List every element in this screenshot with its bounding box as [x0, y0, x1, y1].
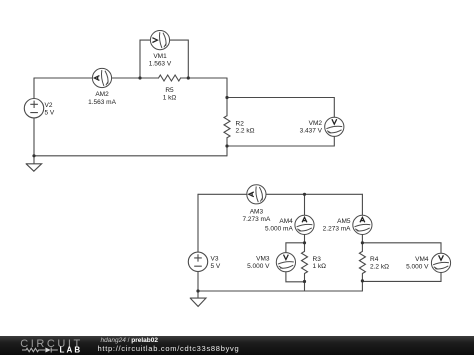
- wire: V3 top stub: [197, 194, 199, 252]
- svg-text:5.000 mA: 5.000 mA: [265, 225, 293, 232]
- svg-text:VM4: VM4: [415, 256, 429, 263]
- svg-text:1.563 V: 1.563 V: [149, 60, 172, 67]
- svg-text:VM2: VM2: [309, 120, 323, 127]
- resistor R5: [159, 75, 181, 81]
- wire: R2 branch top: [226, 78, 228, 116]
- svg-text:5.000 V: 5.000 V: [406, 264, 429, 271]
- svg-text:3.437 V: 3.437 V: [300, 128, 323, 135]
- node: junction AM2-VM1 left: [138, 76, 141, 79]
- svg-text:R4: R4: [370, 256, 379, 263]
- resistor R2: [224, 116, 230, 138]
- node: junction top rail / AM4: [303, 193, 306, 196]
- svg-text:V2: V2: [45, 102, 53, 109]
- svg-text:1 kΩ: 1 kΩ: [163, 95, 177, 102]
- voltmeter VM4: [431, 253, 450, 272]
- wire: AM4 to R3: [304, 234, 306, 243]
- svg-text:V3: V3: [211, 256, 219, 263]
- svg-text:VM1: VM1: [153, 53, 167, 60]
- wire: top rail upper circuit, V2 to R5 left: [34, 77, 159, 79]
- ammeter AM4: [295, 215, 314, 234]
- svg-text:2.2 kΩ: 2.2 kΩ: [370, 264, 389, 271]
- wire: VM3 loop top: [286, 243, 305, 253]
- node: junction AM4 / VM3 / R3: [303, 241, 306, 244]
- node: junction V3 ground: [196, 289, 199, 292]
- node: junction R5-VM1 right: [187, 76, 190, 79]
- node: junction R2 top / VM2: [225, 96, 228, 99]
- wire: V3 bottom stub: [197, 272, 199, 292]
- ammeter AM5: [353, 215, 372, 234]
- ground (upper circuit): [26, 156, 41, 171]
- svg-text:AM5: AM5: [337, 218, 351, 225]
- wire: V2 top stub: [33, 78, 35, 99]
- wire: V2 bottom stub: [33, 118, 35, 156]
- wire: VM4 loop top: [362, 243, 441, 254]
- node: junction R4 bottom / VM4: [361, 279, 364, 282]
- voltmeter VM3: [276, 253, 295, 272]
- ammeter AM2: [92, 68, 111, 87]
- wire: VM4 loop bottom: [362, 272, 441, 281]
- wire: bottom rail upper circuit: [34, 155, 227, 157]
- wire: AM5 branch: [361, 194, 363, 215]
- svg-text:5.000 V: 5.000 V: [247, 263, 270, 270]
- svg-text:http://circuitlab.com/cdtc33s8: http://circuitlab.com/cdtc33s88byvg: [98, 344, 240, 353]
- node: junction V2 ground: [32, 154, 35, 157]
- ground (lower circuit): [190, 291, 206, 306]
- svg-text:1 kΩ: 1 kΩ: [313, 263, 327, 270]
- CircuitLab logo resistor squiggle and diode: [22, 348, 58, 353]
- wire: VM1 measuring loop: [140, 40, 188, 78]
- svg-text:5 V: 5 V: [45, 109, 55, 116]
- voltage source V3: [188, 252, 207, 271]
- svg-text:7.273 mA: 7.273 mA: [242, 216, 270, 223]
- wire: top rail lower circuit: [198, 193, 362, 195]
- wire: VM2 loop bottom: [227, 136, 334, 146]
- wire: bottom rail lower circuit: [198, 290, 362, 292]
- svg-text:VM3: VM3: [256, 255, 270, 262]
- svg-text:AM2: AM2: [95, 91, 109, 98]
- wire: R2 branch bottom: [226, 138, 228, 156]
- wire: VM2 loop top: [227, 98, 334, 118]
- svg-text:1.563 mA: 1.563 mA: [88, 99, 116, 106]
- resistor R3: [302, 243, 308, 291]
- node: junction R2 bottom / VM2: [225, 144, 228, 147]
- node: junction R3 bottom / VM3: [303, 280, 306, 283]
- resistor R4: [359, 243, 365, 291]
- wire: AM4 branch: [304, 194, 306, 215]
- svg-text:R5: R5: [165, 87, 174, 94]
- wire: R5 right to top-right corner: [181, 77, 227, 79]
- voltmeter VM2: [325, 117, 344, 136]
- voltmeter VM1: [150, 30, 169, 49]
- svg-text:AM3: AM3: [250, 209, 264, 216]
- node: junction AM5 / VM4 / R4: [361, 241, 364, 244]
- svg-text:LAB: LAB: [60, 345, 83, 354]
- wire: VM3 loop bottom: [286, 272, 305, 282]
- wire: AM5 to R4: [361, 234, 363, 243]
- svg-text:5 V: 5 V: [211, 263, 221, 270]
- svg-text:2.273 mA: 2.273 mA: [323, 225, 351, 232]
- svg-text:2.2 kΩ: 2.2 kΩ: [236, 127, 255, 134]
- ammeter AM3: [247, 185, 266, 204]
- svg-text:AM4: AM4: [279, 218, 293, 225]
- voltage source V2: [24, 99, 43, 118]
